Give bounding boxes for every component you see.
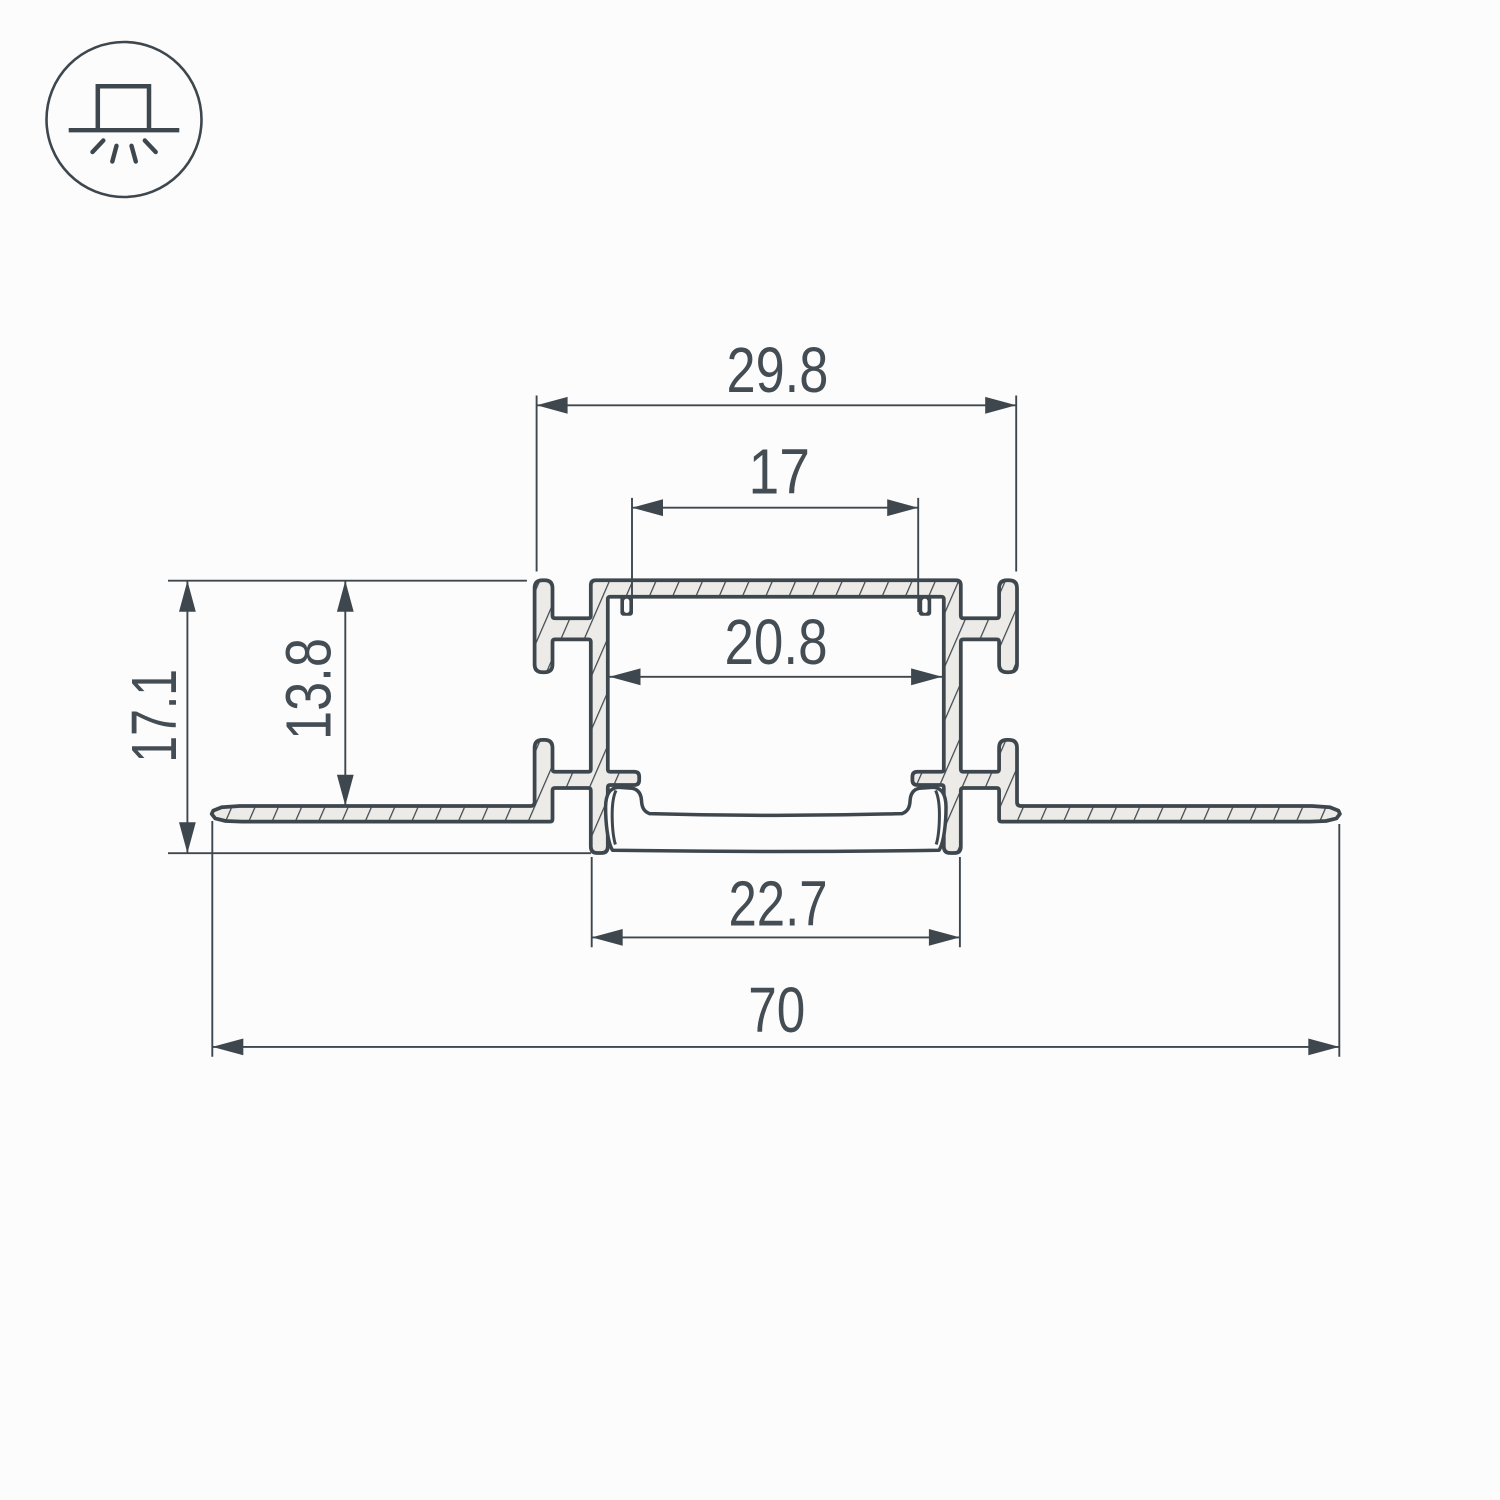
svg-text:20.8: 20.8 bbox=[724, 606, 827, 678]
svg-text:17.1: 17.1 bbox=[118, 669, 190, 763]
svg-text:13.8: 13.8 bbox=[272, 638, 344, 740]
svg-text:70: 70 bbox=[748, 974, 805, 1046]
svg-text:29.8: 29.8 bbox=[727, 334, 829, 406]
svg-text:17: 17 bbox=[748, 436, 810, 508]
svg-text:22.7: 22.7 bbox=[728, 867, 827, 939]
